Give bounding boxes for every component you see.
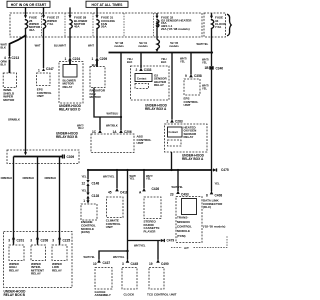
lower bus to C479 [128,240,161,242]
svg-text:HOT IN ON OR START: HOT IN ON OR START [11,3,47,7]
svg-text:YEL/BLK: YEL/BLK [127,57,133,64]
svg-text:45: 45 [108,190,112,194]
wire fuse 32 to bus with coil [156,21,160,52]
gauge assembly [95,268,113,298]
blower motor relay box (dashed) [59,62,83,104]
wire '99-'01 branch to O2 relay [140,53,142,69]
svg-text:YEL/BLK: YEL/BLK [161,57,167,64]
radiator fan motor [90,67,106,100]
fuse box divider [64,13,66,37]
svg-text:C493: C493 [181,192,189,196]
bus in strip box [14,156,63,158]
node relay output junction [170,169,172,171]
wire '97-'98 branch to ABS [120,53,122,131]
clock [122,268,137,297]
brace right of fuse 33 [227,14,231,36]
svg-text:1B: 1B [205,66,210,70]
connector C475 [213,168,229,172]
ABS control unit [91,134,151,153]
wire feed to fuse 27 [42,7,45,18]
svg-text:12: 12 [81,181,85,185]
node TCM branch [177,169,179,171]
wire fuse 33 down [211,29,213,66]
svg-text:C418: C418 [120,190,128,194]
svg-text:1A: 1A [113,130,118,134]
fuse 33 box (dashed) [204,13,226,37]
node clock junction [126,250,128,252]
node ECM corner [87,169,89,171]
junction strip box (dashed) [7,150,79,164]
svg-text:UNDER-HOODRELAY BOX B: UNDER-HOODRELAY BOX B [4,290,27,298]
wire junction to 1C [99,117,101,130]
svg-text:C426: C426 [152,187,160,191]
svg-text:C213: C213 [12,56,20,60]
svg-text:'02-'05models: '02-'05models [169,41,179,48]
wire feed to fuse 32 [156,13,159,19]
wire C340 down to bus [211,70,213,170]
svg-text:C206: C206 [124,130,132,134]
svg-text:1: 1 [92,57,94,61]
svg-text:WHT/YEL: WHT/YEL [113,255,125,259]
connector C213 pin 4 [4,56,19,60]
wire into ECM [86,199,89,204]
wire fan motor to junction [94,88,121,118]
engine control module [81,204,97,234]
svg-text:C148: C148 [92,181,100,185]
TCS control unit [147,268,177,297]
svg-text:ORN/BLK: ORN/BLK [45,176,57,180]
wire wiper high relay drop [13,157,15,243]
connector C493 pin 23 [170,191,189,197]
svg-text:WHT/YEL: WHT/YEL [84,255,96,259]
power header: HOT IN ON OR START [7,1,50,7]
fuse F26 symbol [25,19,28,30]
arrow into strip bus [24,152,27,155]
svg-text:UNDER-HOODRELAY BOX A: UNDER-HOODRELAY BOX A [145,104,168,112]
heated O2 relay contact box [168,127,183,137]
blower relay contact box [63,65,77,78]
connector C208 pin 3 [30,236,48,245]
svg-text:C209: C209 [100,57,108,61]
svg-text:UNDER-HOODRELAY BOX D: UNDER-HOODRELAY BOX D [59,104,82,112]
EPS control unit U-right [184,79,201,107]
svg-text:C283: C283 [175,120,183,124]
svg-text:Contact: Contact [137,77,146,80]
fuse box divider [92,13,94,37]
node feed branch [126,169,128,171]
svg-text:WHT/BLU: WHT/BLU [107,111,119,115]
heated O2 relay coil box (dashed) [168,140,182,146]
svg-text:WHT/YEL: WHT/YEL [197,42,209,46]
wire bus down to clock/gauge feed [127,170,129,251]
node bus/DLC [210,169,212,171]
connector C201 pin 3 [8,236,24,245]
TCM connector box [182,199,197,215]
svg-text:WHT/YEL: WHT/YEL [134,243,146,247]
svg-text:TCS CONTROL UNIT: TCS CONTROL UNIT [147,292,177,296]
svg-text:1: 1 [65,57,67,61]
svg-text:3: 3 [122,262,124,266]
connector 1C [92,130,102,134]
svg-text:UNDER-HOODRELAY BOX A: UNDER-HOODRELAY BOX A [182,154,205,162]
svg-text:3: 3 [52,239,54,243]
fuse box divider [153,13,155,37]
connector C333 pin 2 [136,68,152,72]
transmission control module outer box (dashed) [176,197,202,243]
wire TCS drop [157,241,159,260]
node climate branch [116,169,118,171]
wire fuse 27 to C347 [43,29,45,68]
node fuse26 branch [24,34,26,36]
connector C408 pin 8 [206,191,222,197]
svg-text:WHT/BLK: WHT/BLK [106,123,118,127]
fuse F27 symbol [43,19,46,30]
accessory bus [88,169,212,171]
connector C437 pin 10 [93,259,110,265]
wire fuse 31 to C209 [96,29,98,58]
svg-text:Contact: Contact [169,131,178,134]
wire branch to wiper motor (WHT/BLK diagonal) [10,36,26,57]
svg-text:C309: C309 [67,155,75,159]
fuse box divider [123,13,125,37]
svg-text:4: 4 [4,56,6,60]
svg-text:1: 1 [38,68,40,72]
wire C213 to wiper motor [9,60,11,74]
svg-text:C333: C333 [144,68,152,72]
wiper low relay [52,245,67,272]
svg-text:C490: C490 [161,262,169,266]
wire bus to DLC [211,170,213,192]
wire heated O2 relay output to bus [171,152,173,170]
connector C418 pin 45 [108,188,128,194]
svg-text:10: 10 [93,262,97,266]
heated oxygen sensor relay box (dashed) [165,124,208,152]
stereo radio cassette player [144,197,162,234]
svg-text:C224: C224 [73,57,81,61]
svg-text:YEL: YEL [81,188,86,192]
wiper high relay [9,245,24,272]
svg-text:WHT: WHT [35,43,41,47]
svg-text:C201: C201 [17,239,25,243]
O2 relay coil box (dashed) [135,84,149,89]
svg-text:8: 8 [206,193,208,197]
svg-text:C208: C208 [41,239,49,243]
wire wiper low relay drop [59,157,61,243]
windshield wiper motor [3,73,16,102]
svg-text:C445: C445 [131,262,139,266]
svg-text:3: 3 [30,239,32,243]
wire wiper intermittent relay drop [37,157,39,243]
connector C309 [63,155,75,160]
svg-text:HOT AT ALL TIMES: HOT AT ALL TIMES [92,3,124,7]
wire fuse 26 output (ORN/BLK vertical) [25,29,27,153]
svg-text:WHT/YEL: WHT/YEL [103,174,115,178]
svg-text:'97-'98models: '97-'98models [114,41,124,48]
svg-text:C479: C479 [167,239,175,243]
power header: HOT AT ALL TIMES [86,1,128,7]
wire bus to EPS C358 [190,53,192,75]
svg-text:ORN/BLK: ORN/BLK [1,176,13,180]
O2 relay contact box [135,74,152,82]
connector C445 pin 3 [122,259,138,265]
gauge feed bus [99,251,128,260]
under-hood relay box B (dashed) [4,232,73,288]
wire clock drop [127,251,129,260]
main bus (HOT AT ALL TIMES distribution) [109,52,213,54]
svg-text:23: 23 [170,192,174,196]
svg-text:1: 1 [83,199,85,203]
connector C224 pin 1 [65,57,81,61]
node stereo branch [143,169,145,171]
EPS control unit U-left [37,73,52,98]
svg-text:YEL: YEL [215,181,220,185]
connector C225 pin 3 [52,236,70,245]
fuse F33 symbol [211,19,214,30]
svg-text:BLU/WHT: BLU/WHT [54,43,66,47]
connector C128 pin 1 (in-line) [83,193,99,204]
A/T dashed wire [171,236,227,250]
svg-text:3: 3 [8,239,10,243]
wire '02-'05 branch to heated O2 relay [171,53,173,120]
fuse F28 symbol [69,19,72,30]
wire feed to fuse 28 [69,7,72,18]
svg-text:9: 9 [185,74,187,78]
wire fuse 28 to C224 [69,29,71,58]
under-dash fuse/relay box (dashed) [10,13,202,37]
wiper intermittent relay [31,245,46,276]
wire feed to fuse 26 [24,7,27,18]
fuse F31 symbol [96,19,99,30]
svg-text:UNDER-HOODRELAY BOX B: UNDER-HOODRELAY BOX B [56,131,79,139]
node bus right end [211,51,213,53]
connector C148 pin 12 (in-line) [81,180,99,186]
node fan/ABS junction [120,116,122,118]
connector C209 pin 1 [92,57,108,61]
svg-text:C408: C408 [215,193,223,197]
svg-text:'99-'01models: '99-'01models [138,41,148,48]
svg-text:WHT: WHT [88,43,94,47]
svg-text:19: 19 [149,262,153,266]
svg-text:C225: C225 [63,239,71,243]
svg-text:C347: C347 [46,67,54,71]
svg-text:WHT/BLU: WHT/BLU [77,123,84,130]
svg-text:C340: C340 [216,67,224,71]
wire C224 into blower relay [69,61,71,66]
connector C358 pin 9 [185,74,202,78]
wire feed to fuse 31 [96,7,99,18]
connector C479 [161,239,175,243]
connector C340 (in-line) [209,66,223,70]
svg-text:C358: C358 [194,74,202,78]
connector C283 pin 2 [167,119,183,123]
svg-text:YEL: YEL [81,174,86,178]
svg-text:2: 2 [167,120,169,124]
svg-text:ORN/BLK: ORN/BLK [23,176,35,180]
svg-text:C475: C475 [221,168,229,172]
svg-text:1C: 1C [92,130,97,134]
wire bus to TCM C493 [177,170,179,191]
wire bus to ECM [87,170,89,180]
climate control unit [106,197,123,229]
svg-text:C437: C437 [103,261,111,265]
wire bus to stereo [143,170,145,188]
O2 sensor heater relay box (dashed) [131,66,170,100]
fuse box divider [41,13,43,37]
svg-text:C128: C128 [92,194,100,198]
svg-text:CLOCK: CLOCK [124,292,135,296]
svg-text:A/T: A/T [184,246,189,250]
svg-text:ORN/BLK: ORN/BLK [8,118,20,122]
connector C490 pin 19 [149,259,169,265]
wire bus to climate control [116,170,118,188]
svg-text:2: 2 [136,68,138,72]
svg-text:WHT/YEL: WHT/YEL [172,185,184,189]
connector C347 pin 1 [38,67,54,72]
wire C209 into fan motor [96,61,98,68]
wire C148 to C128 [87,186,89,193]
svg-text:('02-'05 models): ('02-'05 models) [203,225,225,229]
connector C426 pin A [139,187,159,194]
connector C206 pin 1A [113,130,132,134]
fuse F32 symbol [156,19,159,27]
wire feed to fuse 33 [210,13,213,19]
